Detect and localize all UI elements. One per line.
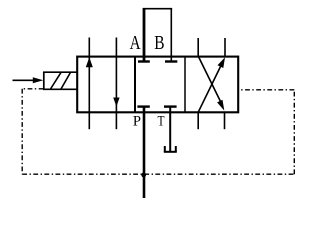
solenoid box (43, 72, 77, 89)
port A blocked symbol (138, 60, 150, 62)
right-position top port stub left (197, 38, 199, 57)
port P supply line (143, 107, 146, 198)
svg-text:A: A (130, 32, 141, 54)
valve body outline (3-position envelope) (77, 57, 238, 113)
port A line (with pilot cap box left side) (143, 8, 146, 61)
actuation arrow into solenoid (13, 77, 44, 83)
port T blocked symbol (164, 105, 177, 107)
right-position bottom port stub left (197, 112, 199, 130)
right-position top port stub right (224, 38, 226, 57)
svg-text:B: B (154, 32, 164, 54)
cap box top edge connecting A and B (143, 8, 172, 10)
left-position flow path 2 (vertical line with down arrow) (113, 38, 119, 130)
right-position bottom port stub right (224, 112, 226, 130)
svg-text:T: T (158, 114, 165, 130)
solenoid slash 1 (51, 72, 62, 89)
pilot line from solenoid (dash-dot) left horizontal (22, 89, 294, 174)
port T return line (169, 107, 171, 152)
svg-text:P: P (133, 114, 141, 130)
solenoid slash 2 (61, 72, 71, 89)
junction node on P line (141, 173, 146, 178)
position divider right (184, 56, 186, 112)
port P blocked symbol (137, 105, 149, 107)
tank symbol (164, 146, 177, 152)
port B blocked symbol (165, 60, 177, 62)
port B line (cap box right side) (170, 8, 172, 61)
crossed flow path with down-right arrow (198, 57, 224, 111)
left-position flow path 1 (vertical line with up arrow) (86, 38, 93, 130)
position divider left (134, 56, 136, 112)
crossed flow path with up-right arrow (198, 57, 225, 112)
